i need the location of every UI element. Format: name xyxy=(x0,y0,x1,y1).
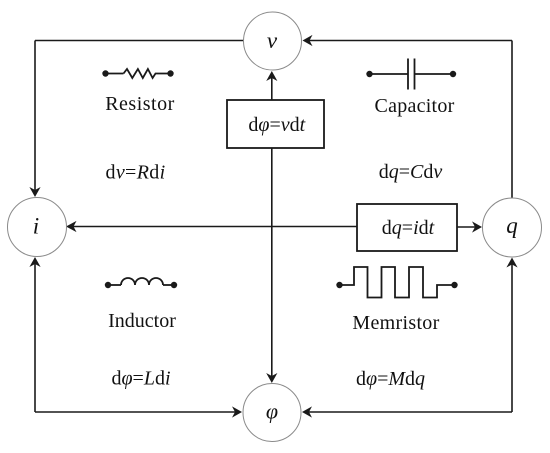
resistor left terminal dot xyxy=(102,70,108,76)
arrowhead into node q bottom xyxy=(506,258,517,268)
memristor right terminal dot xyxy=(451,282,457,288)
wire box dphi=vdt to phi, vertical center segment xyxy=(271,148,273,376)
wire box dq=idt to q xyxy=(457,226,475,228)
inductor symbol (leads and coil arcs) xyxy=(108,278,174,285)
svg-text:dφ=vdt: dφ=vdt xyxy=(248,114,305,136)
svg-text:dq=idt: dq=idt xyxy=(382,217,435,239)
wire i to phi, horizontal segment along bottom xyxy=(35,411,235,413)
node i (current) circle xyxy=(8,198,67,257)
inductor left terminal dot xyxy=(105,282,111,288)
wire q to phi, vertical segment down right side xyxy=(511,265,513,413)
node phi (flux) circle xyxy=(243,384,301,442)
wire v to i, horizontal segment along top xyxy=(35,40,244,42)
memristor left terminal dot xyxy=(336,282,342,288)
wire box dphi=vdt to v xyxy=(271,78,273,100)
box dq=idt xyxy=(357,204,457,251)
arrowhead into node v bottom xyxy=(266,71,277,81)
svg-text:Resistor: Resistor xyxy=(105,93,175,115)
arrowhead into node phi left xyxy=(232,406,242,417)
capacitor right terminal dot xyxy=(450,71,456,77)
arrowhead into node i right xyxy=(66,221,77,232)
capacitor symbol (leads and plates) xyxy=(370,59,454,90)
node q (charge) circle xyxy=(483,198,542,257)
capacitor left terminal dot xyxy=(366,71,372,77)
arrowhead into node i top xyxy=(29,187,40,197)
svg-text:i: i xyxy=(33,214,39,239)
box dphi=vdt xyxy=(227,100,324,148)
arrowhead into node phi right xyxy=(302,406,312,417)
svg-text:Capacitor: Capacitor xyxy=(375,95,455,117)
svg-text:Memristor: Memristor xyxy=(352,312,439,334)
wire q to phi, horizontal segment along bottom xyxy=(309,411,512,413)
resistor right terminal dot xyxy=(167,70,173,76)
svg-text:dv=Rdi: dv=Rdi xyxy=(105,162,165,184)
inductor right terminal dot xyxy=(171,282,177,288)
arrowhead into node phi top xyxy=(266,373,277,383)
svg-text:v: v xyxy=(267,28,278,53)
memristor symbol (square-wave element) xyxy=(343,267,452,298)
svg-text:Inductor: Inductor xyxy=(108,310,176,332)
wire v to i, vertical segment down left side xyxy=(34,41,36,191)
svg-text:φ: φ xyxy=(266,399,278,424)
svg-text:dφ=Ldi: dφ=Ldi xyxy=(111,368,170,390)
arrowhead into node q left xyxy=(472,221,482,232)
arrowhead into node i bottom xyxy=(29,257,40,267)
arrowhead into node v right xyxy=(303,35,313,46)
svg-text:q: q xyxy=(506,213,518,238)
svg-text:dφ=Mdq: dφ=Mdq xyxy=(356,368,425,390)
wire q to v, horizontal segment along top xyxy=(310,40,513,42)
resistor symbol (leads and zigzag) xyxy=(106,69,171,78)
wire box dq=idt to i, horizontal center segment xyxy=(73,226,357,228)
svg-text:dq=Cdv: dq=Cdv xyxy=(379,161,443,183)
wire q to v, vertical segment up right side xyxy=(511,41,513,199)
node v (voltage) circle xyxy=(244,12,302,70)
wire i to phi, vertical segment down left side xyxy=(34,264,36,412)
